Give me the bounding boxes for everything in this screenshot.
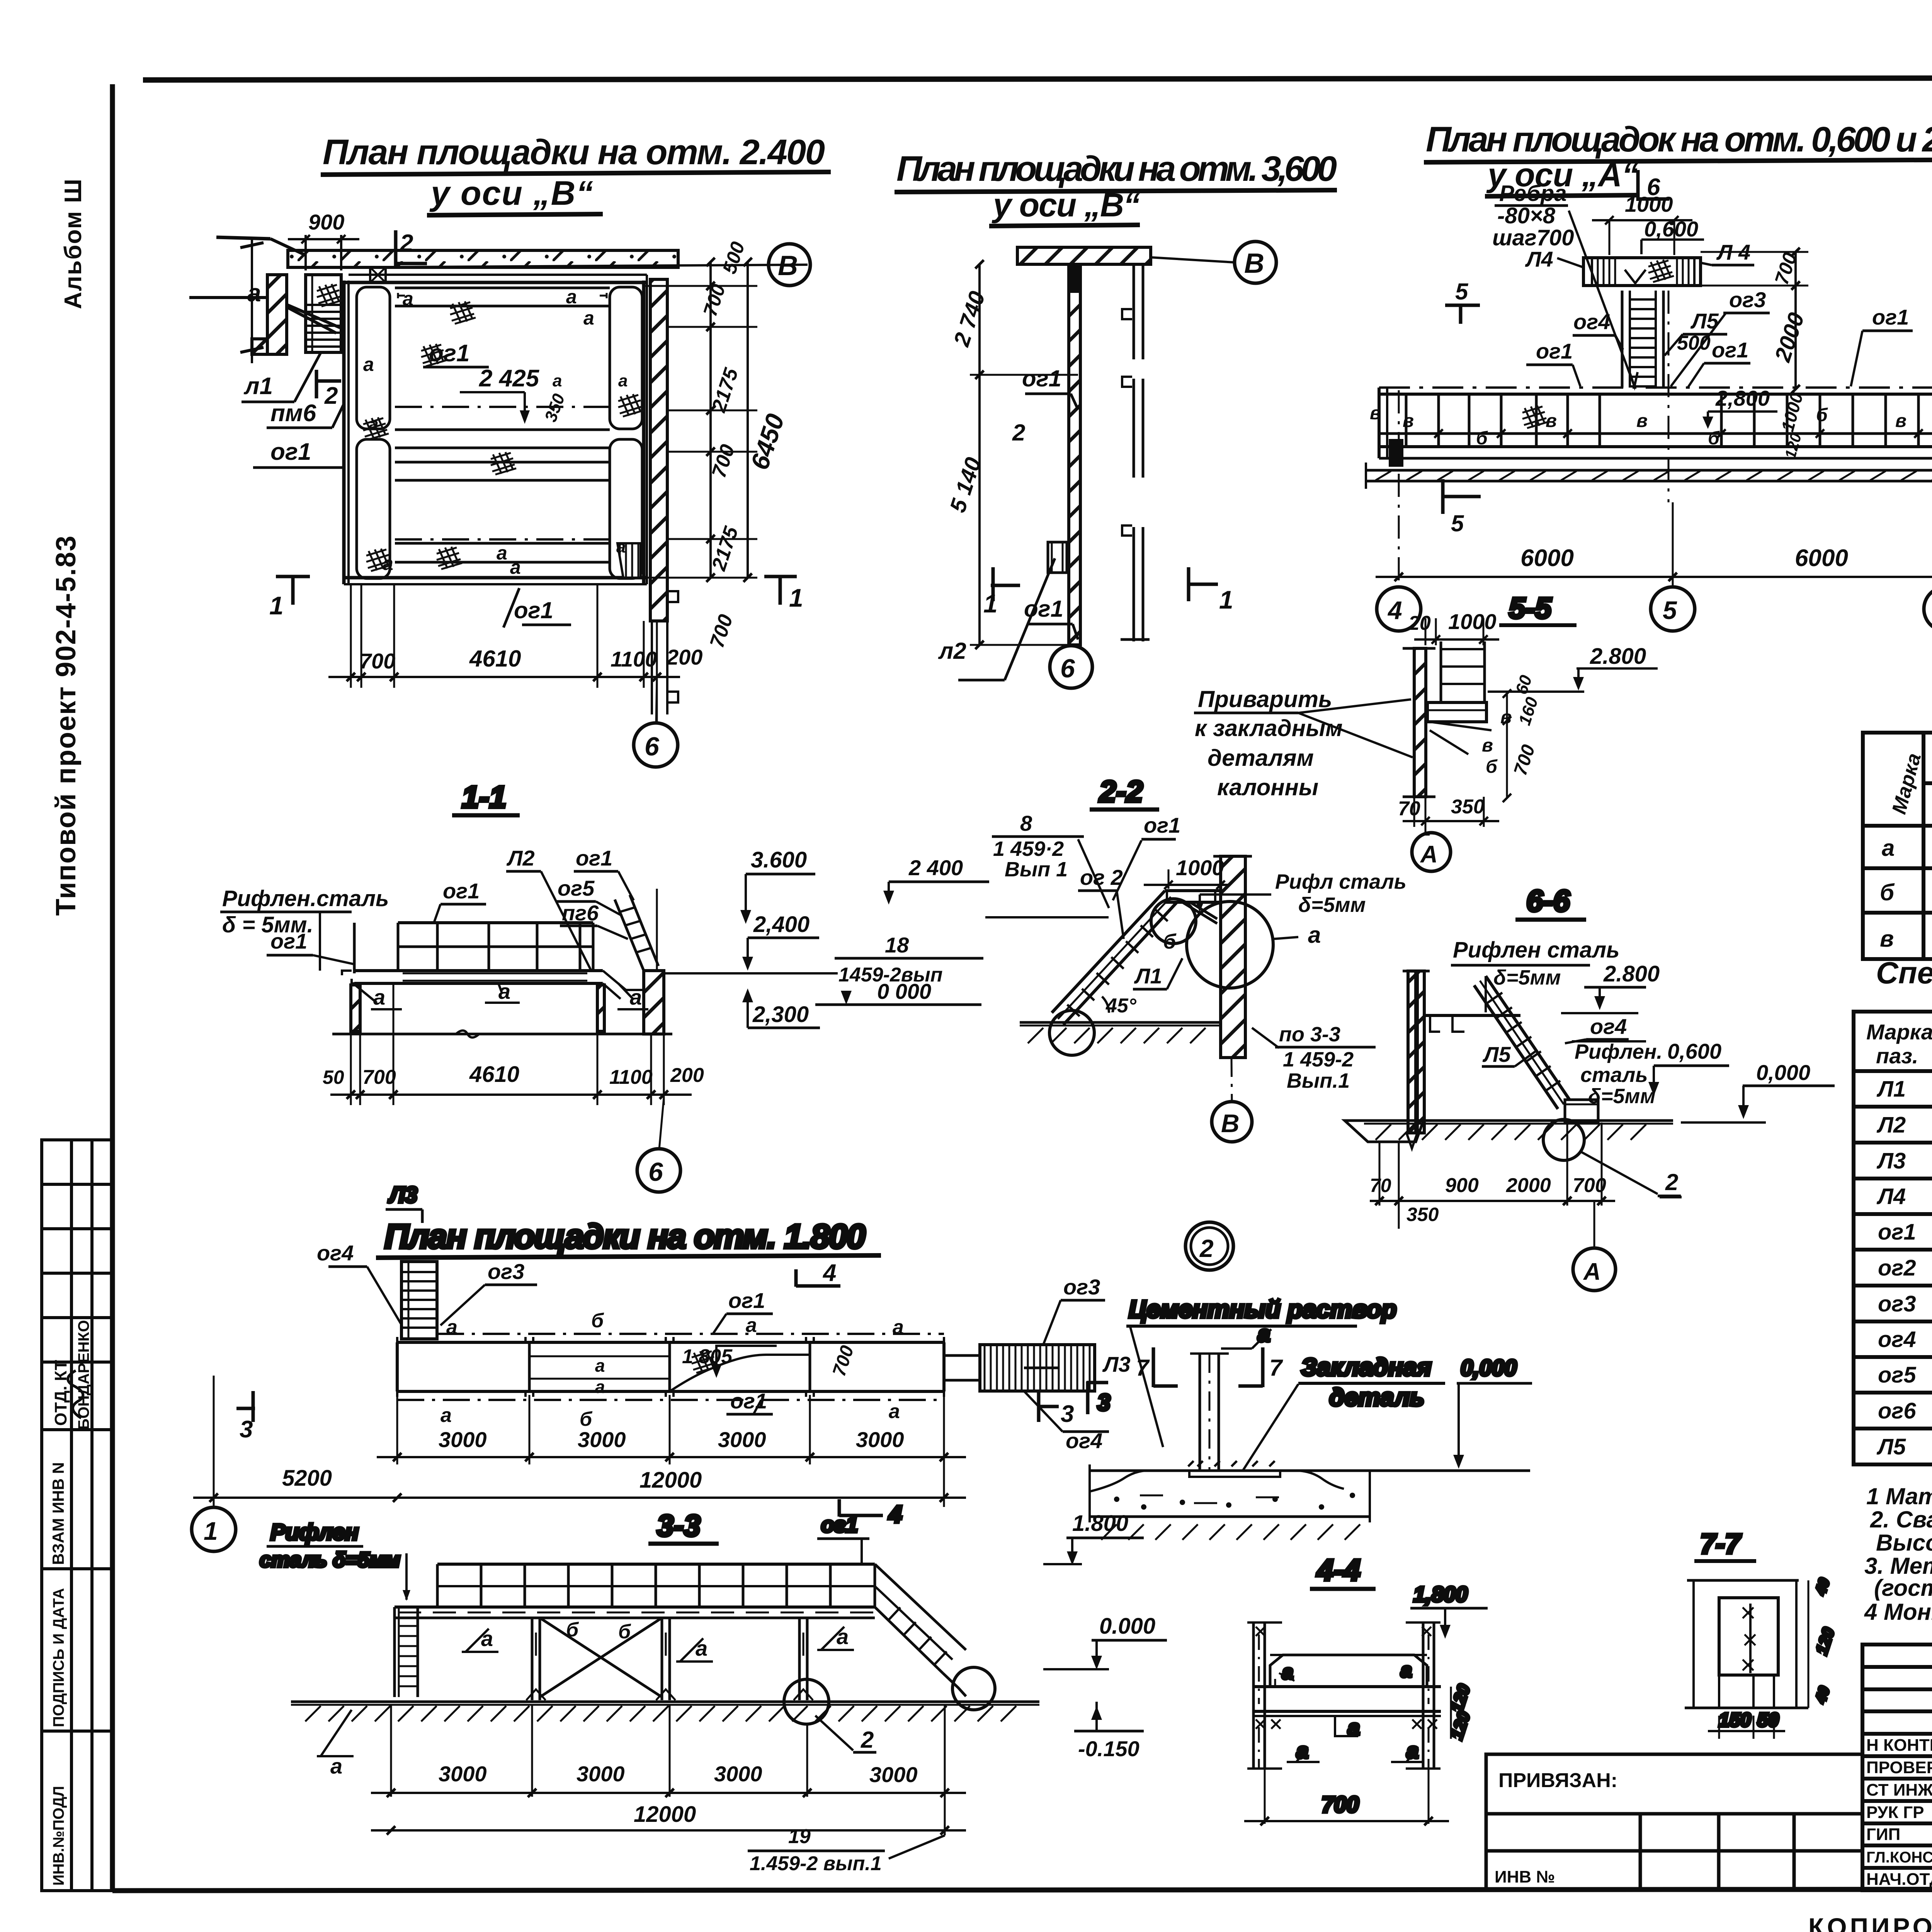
- svg-text:0.000: 0.000: [1099, 1614, 1155, 1639]
- left margin vertical texts: [51, 178, 87, 916]
- svg-text:деталь: деталь: [1329, 1383, 1424, 1411]
- signatures in title block: [68, 1371, 1932, 1886]
- left L-wall hatched: [267, 275, 287, 354]
- svg-text:б: б: [1163, 930, 1177, 953]
- svg-text:ог1: ог1: [270, 929, 307, 953]
- svg-text:3000: 3000: [578, 1427, 626, 1452]
- svg-text:1100: 1100: [611, 647, 657, 671]
- svg-text:ог1: ог1: [1144, 813, 1180, 837]
- left inner panels: [357, 287, 390, 429]
- svg-text:по 3-3: по 3-3: [1279, 1023, 1340, 1046]
- svg-text:6000: 6000: [1520, 545, 1574, 571]
- axis 1 circle: [213, 1493, 215, 1507]
- svg-text:а: а: [618, 371, 628, 390]
- deck band: [395, 1605, 875, 1609]
- circles: [1049, 1010, 1094, 1055]
- svg-text:1,800: 1,800: [1413, 1582, 1468, 1606]
- svg-text:Рифлен сталь: Рифлен сталь: [1453, 937, 1619, 963]
- svg-text:500: 500: [1677, 332, 1711, 354]
- svg-text:70: 70: [1398, 798, 1420, 820]
- svg-text:а: а: [369, 415, 378, 434]
- svg-text:700: 700: [359, 649, 395, 673]
- marker 6 top: [1636, 170, 1640, 201]
- svg-text:б: б: [566, 1619, 579, 1641]
- svg-text:ГЛ.КОНСТР: ГЛ.КОНСТР: [1866, 1849, 1932, 1866]
- beam band: [1252, 1685, 1441, 1688]
- svg-text:2: 2: [861, 1727, 874, 1753]
- svg-text:3000: 3000: [439, 1762, 487, 1786]
- 45 arc: [1102, 997, 1109, 1013]
- svg-text:ог1: ог1: [1878, 1219, 1916, 1245]
- center lower half: [395, 461, 610, 464]
- svg-text:ОТД. КТ: ОТД. КТ: [51, 1360, 70, 1426]
- ground: [1364, 1119, 1673, 1122]
- svg-text:6: 6: [1647, 174, 1660, 201]
- svg-text:План площадок на отм. 0,600 и: План площадок на отм. 0,600 и 2.800: [1426, 120, 1932, 159]
- svg-text:ПОДПИСЬ И ДАТА: ПОДПИСЬ И ДАТА: [50, 1588, 67, 1727]
- svg-text:ог3: ог3: [488, 1259, 524, 1284]
- inner lines of middle bay: [529, 1355, 670, 1357]
- svg-text:1000: 1000: [1448, 609, 1497, 634]
- svg-text:Рифлен.сталь: Рифлен.сталь: [222, 886, 389, 911]
- svg-text:СТ ИНЖ: СТ ИНЖ: [1866, 1781, 1932, 1799]
- svg-text:б: б: [1880, 879, 1895, 905]
- svg-text:ИНВ №: ИНВ №: [1495, 1867, 1555, 1886]
- svg-text:ог1: ог1: [1712, 338, 1748, 362]
- svg-text:350: 350: [1406, 1204, 1439, 1225]
- svg-text:1: 1: [269, 591, 284, 620]
- svg-text:а: а: [1282, 1661, 1293, 1684]
- svg-text:3000: 3000: [439, 1427, 487, 1452]
- svg-text:12000: 12000: [634, 1802, 696, 1827]
- ticks on mid line: [1434, 429, 1932, 438]
- striped patch bottom-right (ladder mark): [617, 543, 641, 578]
- svg-text:5: 5: [1663, 596, 1677, 624]
- svg-text:2000: 2000: [1506, 1174, 1551, 1197]
- a labels: [462, 1629, 498, 1652]
- svg-text:2: 2: [1012, 420, 1025, 446]
- platform at top: [1165, 889, 1221, 892]
- svg-text:2. Сварку праизводить электрод: 2. Сварку праизводить электродами Э42 по…: [1870, 1507, 1932, 1532]
- svg-text:20: 20: [1408, 612, 1431, 634]
- svg-text:700: 700: [362, 1066, 396, 1088]
- column double hatched: [1414, 648, 1426, 797]
- bottom dim: [350, 584, 352, 688]
- 19 / 1.459-2 vyp1: [889, 1835, 945, 1859]
- circle B + leader: [1151, 257, 1234, 262]
- leaders: [1025, 393, 1071, 395]
- svg-text:в: в: [1403, 411, 1414, 431]
- svg-text:Н КОНТР: Н КОНТР: [1866, 1736, 1932, 1755]
- svg-text:ог4: ог4: [1590, 1014, 1627, 1039]
- svg-text:а: а: [446, 1316, 457, 1338]
- right wall hatched + column below: [650, 279, 667, 621]
- svg-text:2: 2: [1665, 1169, 1678, 1195]
- svg-text:200: 200: [666, 645, 702, 669]
- svg-text:а: а: [746, 1314, 757, 1337]
- svg-text:3000: 3000: [869, 1762, 918, 1787]
- svg-text:Рифлен: Рифлен: [270, 1520, 359, 1545]
- ladder diagonal: [1052, 891, 1165, 1013]
- svg-text:4610: 4610: [469, 646, 521, 672]
- svg-text:Марка: Марка: [1866, 1020, 1932, 1044]
- svg-text:8: 8: [1020, 811, 1032, 835]
- bottom dims: [1379, 1122, 1602, 1229]
- svg-text:1 Материал металлоконструкций: 1 Материал металлоконструкций-сталь Вст3…: [1866, 1483, 1932, 1509]
- svg-text:б: б: [591, 1310, 604, 1332]
- center ladder column: [1621, 291, 1624, 388]
- posts: [1406, 394, 1932, 447]
- a labels with hooks: [355, 985, 402, 1009]
- svg-text:а: а: [1296, 1738, 1308, 1763]
- svg-text:ВЗАМ ИНВ N: ВЗАМ ИНВ N: [49, 1462, 67, 1565]
- 18 fraction: [664, 972, 838, 975]
- svg-text:1: 1: [983, 589, 998, 618]
- markers 3: [252, 1391, 255, 1422]
- right small dims: [1506, 694, 1508, 798]
- svg-text:Л2: Л2: [506, 846, 535, 870]
- svg-text:ог5: ог5: [1878, 1362, 1916, 1388]
- svg-text:Закладная: Закладная: [1301, 1353, 1432, 1381]
- svg-text:2,300: 2,300: [752, 1002, 809, 1027]
- x marks: [1256, 1627, 1437, 1729]
- platform bracket: [1427, 702, 1486, 722]
- svg-text:а: а: [553, 371, 562, 390]
- section marker 2 upper: [394, 230, 398, 266]
- concrete slab band top: [288, 250, 678, 267]
- svg-text:18: 18: [885, 933, 909, 957]
- section 1 markers at bottom: [276, 575, 310, 578]
- svg-text:В: В: [1221, 1109, 1240, 1138]
- svg-text:ПРИВЯЗАН:: ПРИВЯЗАН:: [1498, 1769, 1617, 1792]
- svg-text:(гост 695 - 77) по грунтовке.: (гост 695 - 77) по грунтовке.: [1874, 1575, 1932, 1601]
- privarit text leaders: [1194, 712, 1298, 714]
- svg-text:ог3: ог3: [1878, 1291, 1916, 1316]
- svg-text:350: 350: [1451, 796, 1485, 818]
- svg-text:у оси „В“: у оси „В“: [992, 187, 1140, 224]
- svg-text:5-5: 5-5: [1509, 592, 1552, 625]
- svg-text:6: 6: [645, 732, 660, 761]
- 3 marker: [1086, 1381, 1090, 1414]
- axis circle B: [769, 244, 810, 286]
- bottom 70/350: [1413, 797, 1415, 827]
- svg-text:3000: 3000: [718, 1427, 766, 1452]
- svg-text:5: 5: [1451, 510, 1464, 536]
- svg-text:ог1: ог1: [514, 597, 553, 623]
- svg-text:в: в: [1880, 926, 1894, 952]
- svg-text:900: 900: [1445, 1174, 1479, 1197]
- 20/1000 dim: [1425, 618, 1427, 645]
- 2 leader: [853, 1751, 876, 1754]
- svg-text:Рифл сталь: Рифл сталь: [1275, 870, 1406, 893]
- svg-text:Приварить: Приварить: [1198, 686, 1332, 712]
- marker 4 top: [794, 1269, 798, 1287]
- bottom texts: [1808, 1904, 1932, 1932]
- svg-text:2-2: 2-2: [1099, 774, 1143, 808]
- footing left: [1345, 1121, 1423, 1142]
- svg-text:а: а: [837, 1624, 849, 1649]
- svg-text:ог1: ог1: [576, 846, 612, 870]
- column: [1199, 1354, 1201, 1471]
- svg-text:Спецификация элементов к схем: Спецификация элементов к схемам располож…: [1876, 956, 1932, 990]
- axis extensions + circles: [1398, 390, 1400, 587]
- columns: [532, 1618, 807, 1700]
- svg-text:а: а: [889, 1400, 900, 1423]
- svg-text:3-3: 3-3: [657, 1509, 701, 1543]
- svg-text:19: 19: [788, 1825, 811, 1848]
- svg-text:Вып 1: Вып 1: [1005, 858, 1068, 881]
- svg-text:Л1: Л1: [1134, 964, 1162, 988]
- svg-text:ог1: ог1: [429, 340, 469, 367]
- circle 6 bottom: [1072, 645, 1074, 646]
- section marker 2 lower: [315, 370, 318, 398]
- svg-text:А: А: [1420, 841, 1438, 868]
- deck: [354, 969, 603, 972]
- svg-text:ог6: ог6: [1878, 1398, 1916, 1423]
- rail: [398, 921, 593, 924]
- svg-text:0,600: 0,600: [1667, 1039, 1721, 1063]
- svg-text:ог1: ог1: [730, 1389, 767, 1413]
- svg-text:ог4: ог4: [1066, 1429, 1102, 1453]
- svg-text:δ=5мм: δ=5мм: [1588, 1085, 1655, 1108]
- svg-text:Л5: Л5: [1690, 309, 1719, 333]
- svg-text:4: 4: [822, 1260, 836, 1286]
- 2400 flag left: [889, 881, 989, 883]
- wall vertical hatched: [1069, 264, 1080, 645]
- svg-text:а: а: [498, 979, 510, 1003]
- svg-text:3: 3: [1097, 1389, 1110, 1415]
- svg-text:2.800: 2.800: [1590, 644, 1646, 669]
- elevation flags right: [1066, 1537, 1144, 1539]
- wall: [1221, 856, 1245, 1058]
- svg-text:2,400: 2,400: [753, 912, 810, 937]
- left stamp table: [42, 1140, 112, 1891]
- svg-text:1: 1: [1219, 585, 1233, 614]
- circle at foot: [1543, 1119, 1584, 1160]
- svg-text:ог4: ог4: [1878, 1327, 1916, 1352]
- svg-text:б: б: [1816, 405, 1828, 425]
- svg-text:Л1: Л1: [1876, 1077, 1906, 1102]
- dim chain left: [978, 264, 981, 645]
- svg-text:2: 2: [400, 230, 413, 257]
- svg-text:а: а: [583, 307, 594, 329]
- 2425 dim leader: [460, 391, 525, 393]
- svg-text:Л3: Л3: [1876, 1148, 1906, 1173]
- svg-text:в: в: [1636, 411, 1648, 431]
- right staircase: [875, 1564, 966, 1650]
- svg-text:-80×8: -80×8: [1497, 203, 1556, 228]
- 120 120 dims right: [1450, 1687, 1452, 1739]
- svg-text:ог4: ог4: [317, 1241, 354, 1265]
- svg-text:РУК ГР: РУК ГР: [1866, 1803, 1924, 1822]
- svg-text:ГИП: ГИП: [1866, 1825, 1900, 1844]
- svg-text:4: 4: [888, 1501, 902, 1528]
- svg-text:ог1: ог1: [1024, 596, 1063, 622]
- svg-text:ог4: ог4: [1573, 310, 1610, 334]
- svg-text:1000: 1000: [1176, 855, 1224, 880]
- svg-text:а: а: [497, 542, 507, 564]
- svg-text:Цементный раствор: Цементный раствор: [1129, 1295, 1396, 1323]
- svg-text:δ=5мм: δ=5мм: [1298, 893, 1366, 917]
- svg-text:3: 3: [240, 1416, 253, 1443]
- svg-text:Высота сварного шва hш - 6м: Высота сварного шва hш - 6мм.: [1876, 1530, 1932, 1556]
- 700 dim: [1265, 1769, 1429, 1824]
- left ladder: [393, 1607, 396, 1697]
- svg-text:А: А: [1583, 1259, 1601, 1285]
- svg-text:а: а: [566, 286, 577, 308]
- svg-text:1: 1: [204, 1517, 218, 1545]
- labels + leaders: [220, 911, 352, 913]
- svg-text:Л4: Л4: [1525, 247, 1553, 271]
- svg-text:Рифлен.: Рифлен.: [1575, 1040, 1662, 1063]
- dash-dot chords: [437, 1333, 944, 1335]
- svg-text:БОНДАРЕНКО: БОНДАРЕНКО: [75, 1320, 92, 1430]
- svg-text:Л5: Л5: [1482, 1042, 1511, 1066]
- svg-text:а: а: [595, 1377, 605, 1397]
- svg-text:а: а: [1401, 1659, 1412, 1682]
- svg-text:1 459·2: 1 459·2: [993, 837, 1064, 861]
- svg-text:2 425: 2 425: [479, 365, 540, 392]
- bottom dim: [351, 983, 664, 1105]
- svg-text:КОПИРОВАЛ ЛОГИНОВА: КОПИРОВАЛ ЛОГИНОВА: [1808, 1913, 1932, 1932]
- svg-text:ИНВ.№ПОДЛ: ИНВ.№ПОДЛ: [50, 1786, 67, 1886]
- svg-text:3000: 3000: [714, 1762, 762, 1786]
- svg-text:В: В: [1244, 248, 1264, 279]
- svg-text:1.800: 1.800: [1072, 1511, 1128, 1536]
- leader a top-left: [189, 296, 270, 299]
- marker 4: [838, 1499, 841, 1517]
- section 1 markers: [992, 567, 995, 601]
- svg-text:а: а: [510, 556, 521, 578]
- bay joints: [529, 1342, 810, 1391]
- right ladder piece L3: [980, 1345, 1095, 1391]
- svg-text:В: В: [778, 250, 798, 281]
- svg-text:в: в: [1500, 707, 1512, 728]
- svg-text:900: 900: [308, 210, 344, 234]
- svg-text:ог1: ог1: [443, 879, 480, 903]
- svg-text:а: а: [696, 1636, 707, 1660]
- svg-text:-0.150: -0.150: [1078, 1736, 1139, 1761]
- rifl stal leader: [1200, 893, 1271, 896]
- a labels: [1275, 1673, 1294, 1687]
- svg-text:деталям: деталям: [1207, 745, 1314, 771]
- svg-text:ог1: ог1: [1536, 339, 1573, 363]
- svg-text:пм6: пм6: [270, 400, 316, 427]
- svg-text:а: а: [403, 288, 413, 310]
- dims: [214, 1376, 944, 1507]
- main strip: [1379, 386, 1932, 389]
- svg-text:6: 6: [1060, 654, 1075, 683]
- 5 markers: [1445, 304, 1480, 307]
- svg-text:Л4: Л4: [1876, 1184, 1906, 1209]
- svg-text:л1: л1: [243, 373, 273, 400]
- svg-text:Л2: Л2: [1876, 1112, 1906, 1138]
- wall: [1408, 971, 1416, 1133]
- svg-text:а: а: [383, 553, 393, 574]
- elevation flags: [746, 873, 815, 876]
- slab band below: [1366, 469, 1932, 472]
- svg-text:План площадки на отм. 3,600: План площадки на отм. 3,600: [896, 149, 1337, 189]
- svg-text:План площадки на отм. 2.400: План площадки на отм. 2.400: [323, 133, 825, 172]
- svg-text:а: а: [330, 1754, 342, 1778]
- svg-text:4610: 4610: [469, 1062, 519, 1087]
- svg-text:ог3: ог3: [1063, 1275, 1100, 1299]
- svg-text:700: 700: [1321, 1792, 1359, 1817]
- svg-text:в: в: [1546, 411, 1557, 431]
- plan outer edges: [342, 281, 346, 584]
- rail segments right: [1133, 264, 1135, 359]
- circle 2 detail marker: [1185, 1222, 1233, 1270]
- dims: [391, 1705, 945, 1835]
- 1.805 wedge: [670, 1355, 809, 1391]
- slab: [1090, 1469, 1530, 1472]
- right dim chain of ladder: [1794, 252, 1797, 389]
- svg-text:4 Монтаж лестниц и огражден: 4 Монтаж лестниц и ограждений вести по с…: [1864, 1599, 1932, 1625]
- svg-text:калонны: калонны: [1217, 774, 1318, 800]
- svg-text:1 459-2: 1 459-2: [1283, 1048, 1354, 1071]
- svg-text:45°: 45°: [1105, 995, 1137, 1017]
- svg-text:Ребра: Ребра: [1499, 181, 1566, 206]
- X brace: [540, 1618, 662, 1697]
- platform on top: [1583, 258, 1701, 286]
- svg-text:δ=5мм: δ=5мм: [1493, 966, 1561, 989]
- svg-text:б: б: [618, 1621, 631, 1643]
- svg-text:а: а: [1882, 835, 1895, 861]
- svg-text:ог1: ог1: [1022, 366, 1061, 391]
- svg-text:200: 200: [670, 1064, 704, 1087]
- strip: [397, 1341, 944, 1344]
- svg-text:ог1: ог1: [728, 1288, 765, 1313]
- svg-text:1 805: 1 805: [682, 1345, 733, 1368]
- svg-text:а: а: [1308, 922, 1321, 948]
- og leaders: [1573, 334, 1615, 337]
- svg-text:2 400: 2 400: [908, 855, 963, 880]
- svg-text:а: а: [440, 1404, 452, 1427]
- svg-text:а: а: [373, 985, 385, 1009]
- svg-text:3000: 3000: [856, 1427, 904, 1452]
- ladder: [306, 275, 341, 352]
- deck panel: [1270, 1655, 1427, 1687]
- svg-text:НАЧ.ОТД: НАЧ.ОТД: [1866, 1870, 1932, 1889]
- svg-text:2: 2: [1199, 1235, 1214, 1262]
- svg-text:ог1: ог1: [270, 439, 311, 465]
- po 3-3 stack right: [1275, 1046, 1376, 1049]
- svg-text:у оси „В“: у оси „В“: [429, 174, 593, 212]
- svg-text:сталь: сталь: [1580, 1063, 1648, 1087]
- svg-text:пг6: пг6: [562, 901, 599, 925]
- svg-text:б: б: [1476, 428, 1488, 449]
- svg-text:4-4: 4-4: [1316, 1553, 1361, 1587]
- svg-text:6: 6: [648, 1157, 663, 1187]
- 1000 dim + 0,600: [1609, 220, 1611, 255]
- 2.800 flag in strip: [1708, 410, 1777, 413]
- rebra leader: [1569, 211, 1634, 386]
- deck at 2.8 level: [1424, 1014, 1520, 1017]
- svg-text:4: 4: [1387, 596, 1402, 624]
- svg-text:ПРОВЕР: ПРОВЕР: [1866, 1758, 1932, 1777]
- svg-text:а: а: [1348, 1715, 1360, 1740]
- svg-text:3: 3: [1061, 1401, 1074, 1427]
- svg-text:0,000: 0,000: [1461, 1355, 1517, 1381]
- svg-text:а: а: [1406, 1738, 1418, 1763]
- svg-text:700: 700: [1573, 1174, 1606, 1197]
- Л2 box: [1048, 542, 1067, 573]
- corner gusset: [370, 267, 386, 282]
- bevel connector right: [603, 971, 644, 990]
- svg-text:ог1: ог1: [1872, 305, 1909, 329]
- svg-text:6-6: 6-6: [1526, 884, 1570, 918]
- svg-text:а: а: [616, 537, 626, 556]
